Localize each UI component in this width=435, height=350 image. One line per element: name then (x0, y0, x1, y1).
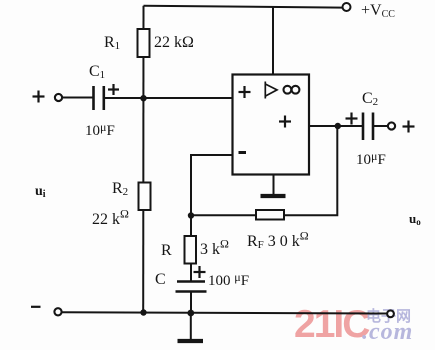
svg-text:C2: C2 (362, 90, 378, 108)
op-amp U1 (233, 75, 310, 175)
label - input bottom (31, 306, 41, 308)
resistor R1 (138, 29, 150, 57)
label + output polarity inside op-amp (279, 116, 291, 128)
terminal output bottom (387, 310, 394, 317)
capacitor C1 (92, 86, 95, 110)
wire Vcc drop to op-amp (272, 7, 274, 75)
label + input top (33, 91, 45, 103)
ground main (190, 313, 192, 340)
svg-text:10μF: 10μF (85, 120, 115, 139)
node feedback junction (188, 212, 194, 218)
capacitor C2 (362, 113, 365, 141)
wire top supply rail (144, 6, 343, 8)
terminal input bottom (54, 308, 61, 315)
terminal input top (55, 94, 62, 101)
resistor R (185, 236, 197, 264)
node bottom ground junction (187, 310, 194, 317)
resistor R2 (139, 183, 151, 211)
svg-text:C1: C1 (89, 63, 105, 81)
svg-text:RF 3 0 kΩ: RF 3 0 kΩ (247, 229, 309, 252)
wire bottom rail (62, 312, 387, 313)
capacitor C (177, 280, 205, 283)
wire C1 to op-amp non-inverting input (105, 97, 233, 99)
label - inverting input (239, 151, 247, 154)
svg-text:R1: R1 (104, 34, 120, 52)
wire feedback left segment (191, 214, 256, 216)
svg-text:100 μF: 100 μF (208, 270, 249, 289)
svg-text:uo: uo (409, 211, 421, 227)
svg-text:.com: .com (362, 319, 413, 345)
node bottom left junction (140, 309, 146, 315)
label + non-inverting input (239, 86, 251, 98)
svg-text:+VCC: +VCC (361, 2, 395, 20)
wire C2 to output terminal (374, 125, 388, 127)
terminal output top (388, 122, 395, 129)
svg-text:3 kΩ: 3 kΩ (200, 237, 229, 259)
op-amp infinity symbol (284, 86, 300, 94)
resistor RF (256, 210, 284, 220)
polarity + of C (194, 266, 206, 278)
svg-text:22 kΩ: 22 kΩ (92, 207, 129, 229)
wire input to C1 (62, 97, 93, 99)
wire left vertical bus (R1/R2 column) (142, 6, 144, 313)
polarity + of C1 (108, 84, 119, 95)
label + output (403, 121, 415, 133)
svg-text:ui: ui (35, 184, 46, 200)
wire inverting input (191, 155, 233, 236)
svg-text:10μF: 10μF (356, 149, 386, 168)
wire R to capacitor C (190, 264, 192, 282)
node output junction (335, 123, 341, 129)
svg-text:22 kΩ: 22 kΩ (154, 34, 194, 51)
op-amp gain triangle (265, 82, 277, 99)
terminal +Vcc (343, 3, 351, 11)
polarity + of C2 (346, 113, 358, 125)
ground below op-amp (273, 175, 275, 195)
svg-text:R2: R2 (112, 180, 128, 198)
svg-text:C: C (155, 271, 166, 288)
wire feedback right segment (284, 126, 337, 215)
svg-text:R: R (161, 242, 172, 259)
node junction C1 / R1 column (140, 95, 146, 101)
wire C to ground rail (190, 292, 192, 314)
wire op-amp output (309, 125, 363, 127)
